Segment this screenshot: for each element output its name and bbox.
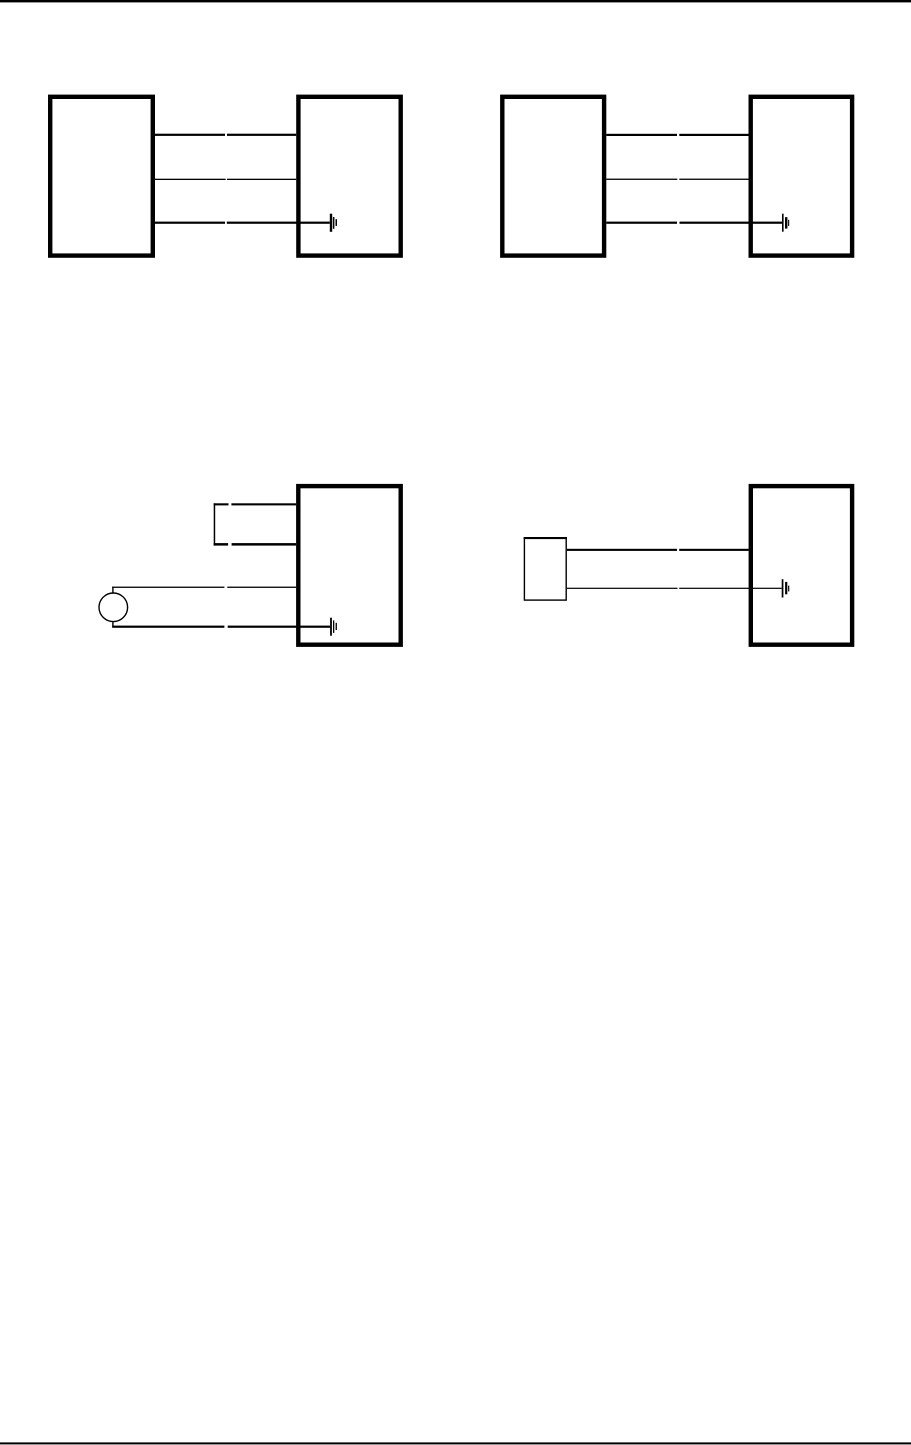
wire (diagram 1 ground wire, right segment) (227, 222, 330, 224)
wire (diagram 2 signal 1, left segment) (606, 134, 677, 136)
wire (diagram 1 signal 1, left segment) (155, 134, 225, 136)
ground (diagram 4, bar 3) (788, 586, 789, 592)
circle plug (diagram 3) (99, 593, 128, 622)
connector plug box top edge (diagram 4) (524, 537, 567, 539)
box U4 (diagram 2 right unit) (751, 97, 852, 256)
wire (diagram 3 ground wire, right segment) (228, 626, 330, 628)
ground (diagram 4, bar 1) (782, 579, 784, 597)
wire (diagram 2 ground wire, right segment) (680, 222, 783, 224)
wire (diagram 1 ground wire, left segment) (155, 222, 225, 224)
wire (diagram 4 signal, left segment) (567, 549, 677, 551)
wire (diagram 1 signal 1, right segment) (227, 134, 296, 136)
ground (diagram 1, bar 2) (333, 217, 335, 229)
ground (diagram 1, bar 1) (330, 214, 332, 232)
ground (diagram 2, bar 3) (788, 220, 789, 226)
wire (diagram 3 stub from circle bottom) (112, 621, 113, 627)
box U3 (diagram 2 left unit) (502, 97, 604, 256)
box U6 (diagram 4 right unit) (751, 486, 852, 645)
ground (diagram 2, bar 1) (782, 214, 784, 232)
wire (diagram 3 loop bottom, right segment) (232, 543, 297, 546)
wire (diagram 2 signal 1, right segment) (679, 134, 748, 136)
wire (diagram 1 signal 2, right segment) (227, 179, 296, 180)
ground (diagram 2, bar 2) (785, 217, 787, 228)
ground (diagram 4, bar 2) (785, 582, 787, 594)
wire (diagram 3 middle, left segment) (112, 587, 224, 588)
wire (diagram 1 signal 2, left segment) (155, 179, 226, 180)
bottom rule (0, 1442, 911, 1444)
wire (diagram 4 ground wire, right segment) (679, 588, 782, 589)
ground (diagram 3, bar 3) (336, 623, 337, 630)
ground (diagram 3, bar 2) (333, 620, 334, 633)
box U1 (diagram 1 left unit) (50, 97, 153, 256)
wire (diagram 3 loop top, left segment) (214, 503, 229, 505)
connector plug box (diagram 4) (524, 538, 566, 600)
wraparound loop left bar (diagram 3) (214, 503, 216, 545)
top rule (0, 0, 911, 2)
wire (diagram 3 middle, right segment) (227, 587, 296, 588)
box U2 (diagram 1 right unit) (298, 97, 400, 256)
wire (diagram 4 ground wire, left segment) (567, 588, 678, 589)
ground (diagram 3, bar 1) (330, 618, 332, 636)
wire (diagram 4 signal, right segment) (679, 549, 748, 551)
wire (diagram 3 stub from circle top) (112, 587, 113, 594)
wire (diagram 2 signal 2, right segment) (679, 179, 748, 180)
wire (diagram 3 loop top, right segment) (231, 503, 296, 505)
wire (diagram 3 ground wire, left segment) (112, 626, 224, 628)
wire (diagram 2 ground wire, left segment) (606, 222, 677, 224)
wire (diagram 2 signal 2, left segment) (606, 179, 677, 180)
ground (diagram 1, bar 3) (336, 219, 338, 226)
box U5 (diagram 3 right unit) (298, 486, 400, 645)
wire (diagram 3 loop bottom, left segment) (214, 543, 228, 546)
